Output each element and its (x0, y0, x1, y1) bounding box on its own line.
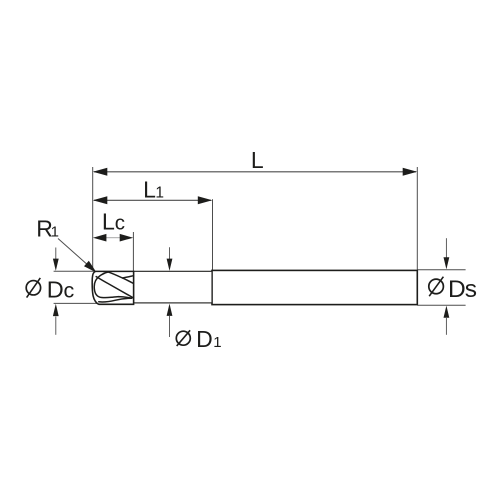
svg-text:Ds: Ds (448, 276, 477, 303)
svg-text:L: L (251, 147, 264, 173)
svg-text:Lc: Lc (102, 208, 125, 234)
svg-text:Dc: Dc (47, 277, 75, 303)
